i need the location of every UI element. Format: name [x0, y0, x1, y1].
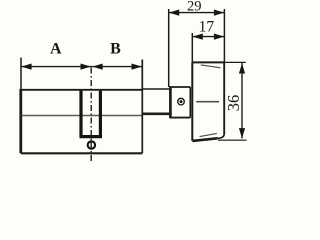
dim 17 arrow right [214, 34, 224, 40]
dim 36 arrow top [239, 63, 245, 73]
center line (dash-dot) [90, 68, 92, 162]
hub screw hole [178, 98, 185, 105]
dim 36 top extension [225, 61, 246, 63]
dim 36 line [241, 63, 243, 138]
dim A extension line left [20, 58, 22, 91]
body internal line [22, 115, 142, 117]
dim 17 extension stub [191, 33, 193, 62]
dim B line [91, 66, 142, 68]
dim B arrow left [92, 64, 102, 70]
dim A arrow left [21, 64, 31, 70]
dim B arrow right [132, 64, 142, 70]
cam rectangle [80, 91, 103, 137]
dim 36 bottom extension [218, 139, 247, 141]
dim 29 line [169, 12, 225, 14]
dim 17 arrow left [193, 34, 203, 40]
knob bottom bevel [200, 133, 217, 136]
dim A arrow right [81, 64, 91, 70]
dim 17 line [192, 36, 224, 38]
dim 29 arrow right [214, 10, 224, 16]
cylinder body outline [21, 60, 143, 154]
dim A line [21, 66, 91, 68]
svg-text:B: B [110, 41, 121, 58]
svg-text:17: 17 [199, 19, 215, 36]
dim 36 arrow bottom [239, 128, 245, 138]
svg-text:36: 36 [224, 95, 243, 112]
dim 29 extension line left [168, 9, 170, 87]
svg-text:29: 29 [187, 0, 202, 15]
thumbturn knob [192, 62, 225, 140]
screw circle below cam [88, 141, 95, 148]
dim 29 arrow left [169, 10, 179, 16]
knob middle line [196, 101, 219, 103]
svg-text:A: A [50, 41, 62, 58]
neck [142, 89, 169, 114]
hub square [169, 87, 190, 118]
knob top bevel [201, 65, 221, 68]
dim 29 extension line right [223, 9, 225, 62]
